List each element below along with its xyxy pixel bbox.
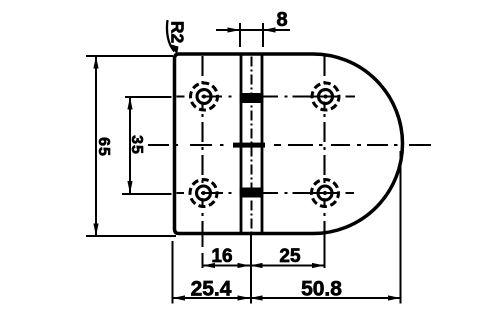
svg-text:65: 65: [95, 137, 112, 157]
svg-text:35: 35: [128, 135, 145, 155]
svg-text:8: 8: [276, 9, 287, 31]
svg-text:25: 25: [279, 246, 301, 267]
svg-text:R2: R2: [168, 21, 188, 44]
svg-text:50.8: 50.8: [301, 278, 342, 301]
svg-text:25.4: 25.4: [191, 278, 232, 301]
svg-text:16: 16: [211, 246, 232, 267]
